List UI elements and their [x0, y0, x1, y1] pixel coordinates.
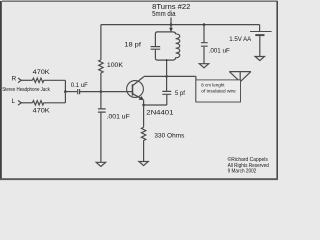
- svg-text:8 cm lenght: 8 cm lenght: [201, 82, 225, 87]
- label .001 uF left: [107, 113, 130, 120]
- label copyright line 2: [228, 163, 269, 169]
- wire rail to 100K: [100, 25, 102, 60]
- capacitor C5 .001 uF lead: [203, 25, 205, 43]
- label 1.5V AA: [229, 36, 252, 43]
- label 100K: [107, 62, 124, 69]
- label Stereo Headphone Jack: [2, 87, 50, 93]
- svg-text:100K: 100K: [107, 62, 124, 69]
- label 8Turns #22: [152, 4, 190, 11]
- svg-text:470K: 470K: [33, 69, 51, 76]
- wire coil label arrow: [170, 18, 173, 32]
- label R: [12, 76, 17, 83]
- label 2N4401: [146, 109, 173, 116]
- label 470K R: [33, 69, 51, 76]
- antenna AE1: [229, 72, 251, 82]
- node collector junction: [165, 75, 168, 78]
- inductor L1 coil: [173, 32, 180, 60]
- label 0.1 uF: [71, 82, 88, 89]
- svg-text:470K: 470K: [33, 107, 51, 114]
- svg-text:5mm dia: 5mm dia: [152, 11, 175, 18]
- wire Vcc top rail: [101, 24, 260, 26]
- svg-text:18 pf: 18 pf: [124, 41, 141, 48]
- transistor Q1 2N4401: [127, 77, 144, 100]
- ground below C2: [96, 162, 105, 166]
- wire emitter drop: [143, 100, 145, 105]
- ground below battery: [255, 57, 264, 61]
- wire 100K to base node: [100, 73, 102, 92]
- border frame: [0, 1, 278, 180]
- capacitor C2 .001 uF plates: [98, 109, 106, 112]
- label of insulated wire: [201, 89, 236, 94]
- wire R resistor to jack bus: [44, 79, 66, 81]
- resistor R4 330 Ohms: [141, 127, 145, 140]
- label copyright line 3: [228, 169, 257, 175]
- label 5 pf: [175, 90, 185, 97]
- node base junction: [100, 90, 103, 93]
- svg-text:5 pf: 5 pf: [175, 90, 185, 97]
- wire jack bus to C1: [65, 91, 77, 93]
- capacitor C1 0.1 uF: [78, 89, 80, 94]
- node emitter junction: [142, 104, 145, 107]
- svg-text:1.5V AA: 1.5V AA: [229, 36, 252, 43]
- wire tank bottom to collector node: [166, 60, 168, 76]
- resistor R2 470K: [33, 101, 44, 105]
- wire C2 to ground: [100, 113, 102, 163]
- capacitor C5 .001 uF plates: [201, 43, 208, 47]
- label L: [12, 98, 16, 105]
- label 8 cm lenght: [201, 82, 225, 87]
- wire C5 to ground: [203, 47, 205, 64]
- wire 18pf to tank bottom: [155, 50, 173, 60]
- note box 8 cm wire: [196, 80, 241, 102]
- battery BT1 1.5V AA: [250, 25, 272, 57]
- label 330 Ohms: [154, 133, 185, 140]
- ground below R4: [139, 162, 148, 166]
- svg-text:2N4401: 2N4401: [146, 109, 173, 116]
- wire R4 to ground: [143, 140, 145, 161]
- jack contact R: [18, 78, 21, 83]
- wire emitter to R4: [143, 105, 145, 127]
- wire jack bus vertical: [64, 80, 66, 103]
- ground below C5: [199, 64, 208, 68]
- capacitor C4 5 pf: [162, 91, 171, 94]
- svg-text:9 March 2002: 9 March 2002: [228, 169, 257, 175]
- wire collector node to antenna: [167, 76, 241, 102]
- wire L resistor to jack bus: [44, 102, 66, 104]
- wire L input row: [21, 102, 32, 104]
- node rail coil tap: [170, 23, 173, 26]
- label 18 pf: [124, 41, 141, 48]
- wire emitter to C4: [144, 95, 167, 105]
- resistor R1 470K: [33, 78, 44, 82]
- node rail C5 tap: [203, 23, 206, 26]
- capacitor C3 18 pf: [151, 47, 161, 50]
- wire C1 to base: [80, 91, 132, 93]
- svg-text:.001 uF: .001 uF: [209, 48, 230, 55]
- label .001 uF top: [209, 48, 230, 55]
- node tank bottom tap: [166, 59, 168, 61]
- svg-text:330 Ohms: 330 Ohms: [154, 133, 185, 140]
- resistor R3 100K: [99, 60, 103, 73]
- label 470K L: [33, 107, 51, 114]
- node jack bus tap: [64, 90, 67, 93]
- wire collector to tank node: [144, 75, 167, 77]
- svg-text:Stereo Headphone Jack: Stereo Headphone Jack: [2, 87, 50, 93]
- label copyright line 1: [228, 156, 269, 163]
- wire R input row: [21, 79, 32, 81]
- svg-text:0.1 uF: 0.1 uF: [71, 82, 88, 89]
- capacitor C2 .001 uF lead: [100, 92, 102, 109]
- svg-text:of insulated wire: of insulated wire: [201, 89, 236, 94]
- label 5mm dia: [152, 11, 175, 18]
- tank loop left and 18pf branch: [155, 32, 172, 46]
- wire collector node to C4: [166, 76, 168, 91]
- svg-text:R: R: [12, 76, 17, 83]
- svg-text:L: L: [12, 98, 16, 105]
- svg-text:.001 uF: .001 uF: [107, 113, 130, 120]
- jack contact L: [18, 101, 21, 106]
